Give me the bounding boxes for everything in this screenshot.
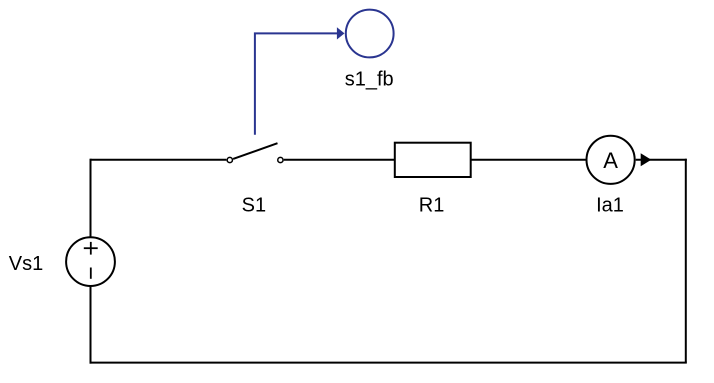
ammeter Ia1 (circle) [587,136,635,184]
svg-text:R1: R1 [419,194,445,216]
resistor R1 [395,143,471,177]
svg-text:s1_fb: s1_fb [345,69,394,91]
wire: left vertical from top corner down to Vs1 positive terminal [90,159,92,238]
ammeter output arrow head [641,153,652,166]
switch S1 right contact circle [278,157,283,162]
wire: from ammeter Ia1 right side to top-right corner [636,159,687,161]
wire: bottom horizontal [90,362,687,364]
svg-text:A: A [603,148,618,173]
wire: top-left horizontal from node corner to switch S1 left terminal [91,159,227,161]
signal arrow head (blue) [337,27,345,39]
svg-text:Ia1: Ia1 [596,195,624,217]
wire: left vertical from Vs1 negative terminal to bottom corner [90,286,92,364]
switch S1 left contact circle [227,157,232,162]
wire: from switch S1 right terminal to resistor R1 [284,159,395,161]
switch S1 lever [233,143,277,159]
signal wire (blue) from switch S1 up and right to s1_fb probe [255,33,338,134]
wire: right vertical [685,159,687,363]
svg-text:Vs1: Vs1 [9,253,43,275]
Vs1 plus sign [84,242,98,255]
signal port s1_fb (blue circle) [346,10,394,58]
svg-text:S1: S1 [242,194,266,216]
Vs1 minus sign (vertical dash) [90,268,92,279]
wire: from resistor R1 to ammeter Ia1 [471,159,586,161]
voltage source Vs1 (circle) [66,237,115,286]
